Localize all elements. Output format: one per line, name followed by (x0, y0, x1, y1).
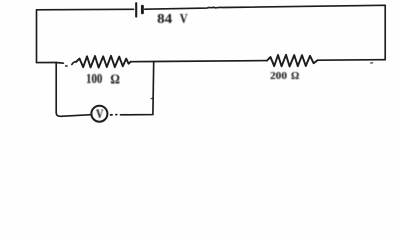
svg-text:84: 84 (157, 12, 172, 27)
svg-text:200: 200 (270, 70, 288, 82)
svg-text:100: 100 (86, 72, 102, 87)
svg-text:Ω: Ω (110, 72, 120, 87)
svg-text:Ω: Ω (291, 70, 299, 82)
svg-text:V: V (96, 106, 104, 121)
svg-text:V: V (180, 12, 188, 27)
